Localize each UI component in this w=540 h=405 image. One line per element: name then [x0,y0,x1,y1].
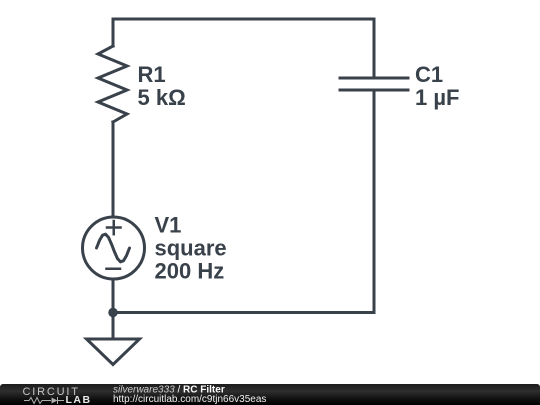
svg-text:square: square [155,236,227,261]
wire top (node A: R1 top to C1 top) [113,18,374,21]
capacitor C1 [340,78,408,90]
svg-text:R1: R1 [138,62,166,87]
voltage source V1 [83,217,145,279]
wire R1 bottom to V1 top [112,122,115,217]
svg-text:200 Hz: 200 Hz [155,259,225,284]
svg-text:5 kΩ: 5 kΩ [138,85,186,110]
svg-text:LAB: LAB [66,394,92,405]
wire bottom (junction to C1 bottom) [113,311,374,314]
ground [87,339,140,365]
resistor R1 [98,46,127,122]
footer bar [0,384,540,405]
svg-text:V1: V1 [155,213,182,238]
svg-text:1 µF: 1 µF [415,85,459,110]
svg-text:C1: C1 [415,62,443,87]
logo resistor-diode glyph [24,397,64,404]
wire left lead to R1 [112,19,115,46]
wire V1 bottom to ground node [112,279,115,339]
node junction dot [108,308,117,317]
svg-text:http://circuitlab.com/c9tjn66v: http://circuitlab.com/c9tjn66v35eas [113,394,266,405]
wire right C1 bottom to bottom corner [373,90,376,313]
wire right top corner to C1 top [373,19,376,78]
